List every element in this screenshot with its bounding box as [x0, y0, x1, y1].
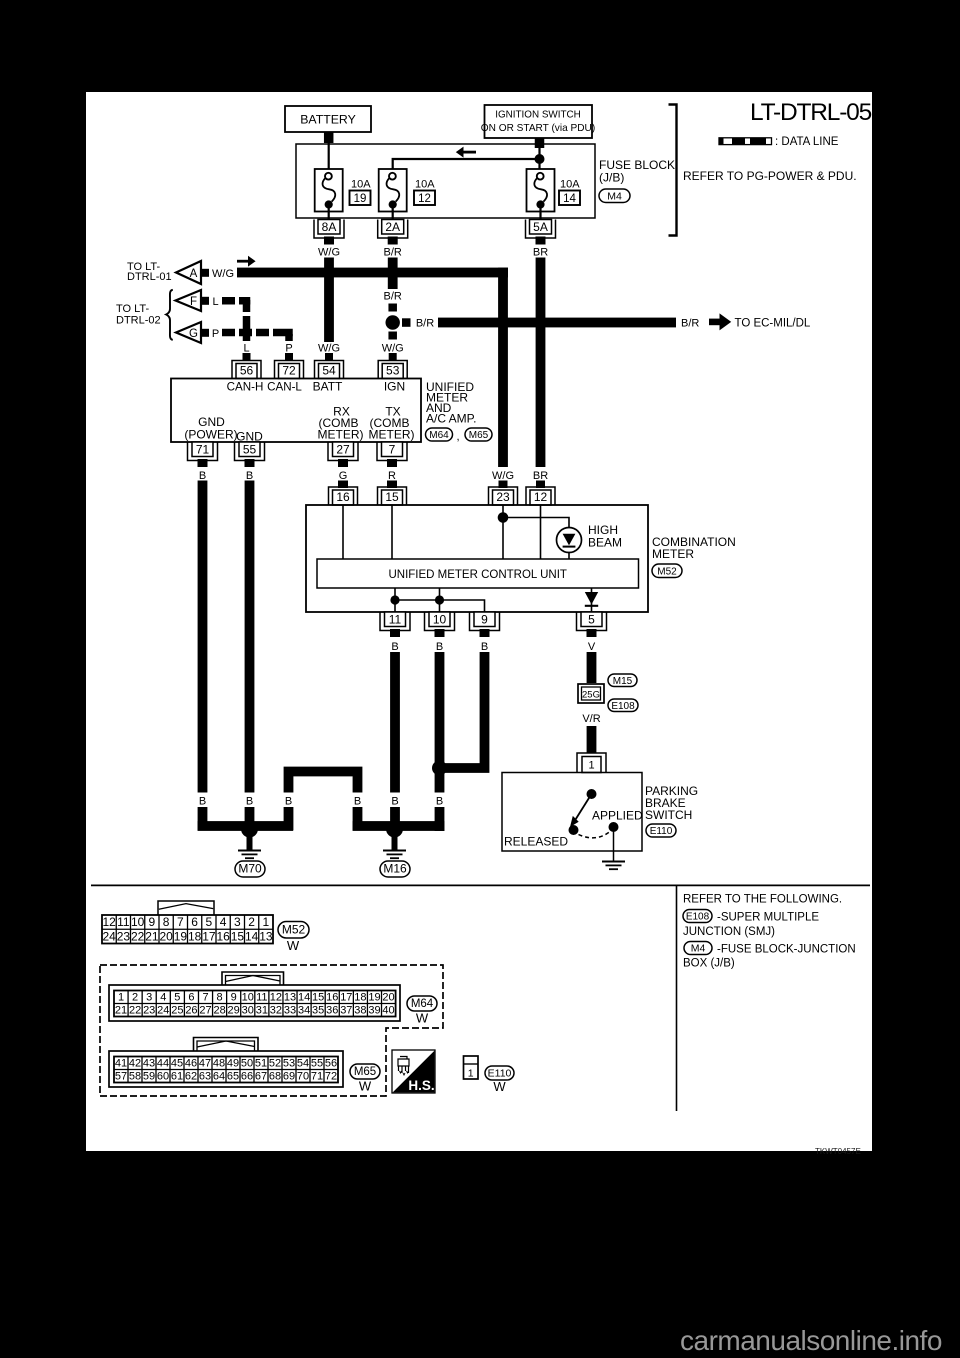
combination meter box [306, 505, 648, 612]
svg-text:27: 27 [336, 442, 350, 456]
svg-text:5: 5 [174, 991, 180, 1003]
wire B/R from 2A [388, 258, 398, 290]
svg-text:W/G: W/G [382, 343, 404, 355]
brace for DTRL-02 [166, 290, 173, 340]
svg-text:25G: 25G [582, 689, 600, 700]
stub above pin 16 [338, 481, 348, 489]
svg-text:BATT: BATT [313, 380, 343, 394]
svg-text:27: 27 [199, 1004, 211, 1016]
svg-text:4: 4 [220, 915, 227, 929]
wire pin23 to UMCU [502, 505, 504, 559]
wire W/G horizontal bus [237, 268, 508, 278]
svg-text:20: 20 [159, 929, 173, 943]
switch contact applied node [609, 822, 619, 832]
stub above pin 72 [285, 353, 293, 361]
connector pin 9 [474, 612, 495, 627]
svg-text:31: 31 [256, 1004, 268, 1016]
off-page connector F triangle [176, 290, 202, 311]
white scanned page [86, 92, 872, 1151]
svg-text:22: 22 [129, 1004, 141, 1016]
svg-text:JUNCTION (SMJ): JUNCTION (SMJ) [683, 926, 775, 938]
svg-text:DTRL-02: DTRL-02 [116, 315, 161, 327]
svg-text:M64: M64 [429, 430, 449, 441]
svg-text:P: P [212, 328, 219, 340]
svg-text:-SUPER MULTIPLE: -SUPER MULTIPLE [717, 912, 819, 924]
ground symbol parking brake [602, 861, 625, 863]
svg-text:METER): METER) [369, 428, 415, 442]
svg-text:72: 72 [282, 364, 296, 378]
wire stub below junction [388, 332, 397, 340]
svg-text:R: R [388, 470, 396, 482]
svg-text:66: 66 [241, 1070, 253, 1082]
high beam LED symbol [563, 534, 576, 546]
svg-text:(J/B): (J/B) [599, 171, 624, 185]
connector M64 tab [222, 972, 284, 986]
connector pin 5 [581, 612, 602, 627]
svg-text:UNIFIED METER CONTROL UNIT: UNIFIED METER CONTROL UNIT [388, 569, 566, 581]
fuse 14 number box [559, 191, 580, 206]
connector pin 8A [318, 220, 340, 235]
svg-text:7: 7 [202, 991, 208, 1003]
svg-text:56: 56 [325, 1057, 337, 1069]
svg-text:55: 55 [243, 442, 257, 456]
svg-text:44: 44 [157, 1057, 169, 1069]
junction node on pin23 wire [498, 512, 509, 523]
wire label B at x395 ground bus [387, 793, 403, 808]
wire UMCU to diode [591, 588, 593, 613]
wire B from pin 10 [435, 652, 445, 831]
connector M52 oval [652, 564, 682, 578]
svg-text:METER): METER) [318, 428, 364, 442]
wire V/R to parking brake [587, 726, 597, 753]
svg-text:B: B [391, 796, 398, 808]
svg-text:14: 14 [298, 991, 310, 1003]
svg-text:RELEASED: RELEASED [504, 835, 568, 849]
svg-text:M16: M16 [383, 862, 407, 876]
connector pin 12 [530, 490, 551, 505]
svg-text:B: B [246, 470, 253, 482]
svg-text:1: 1 [263, 915, 270, 929]
svg-text:BR: BR [533, 470, 548, 482]
connector M65 tab [194, 1038, 259, 1052]
svg-text:39: 39 [368, 1004, 380, 1016]
svg-text:B/R: B/R [681, 318, 699, 330]
svg-text:21: 21 [115, 1004, 127, 1016]
connector E110 pin box [464, 1056, 479, 1079]
svg-text:M52: M52 [282, 922, 306, 936]
wire junction to fuse 12 [393, 159, 540, 173]
svg-text:51: 51 [255, 1057, 267, 1069]
svg-text:24: 24 [102, 929, 116, 943]
svg-text:A: A [190, 268, 198, 280]
connector pin 10 [429, 612, 450, 627]
wire label B at x249.5 ground bus [242, 793, 258, 808]
svg-text:69: 69 [283, 1070, 295, 1082]
fuse 10A #12 [379, 169, 407, 212]
wire battery to fuse 19 [328, 143, 330, 173]
svg-text:12: 12 [418, 193, 431, 205]
svg-text:58: 58 [129, 1070, 141, 1082]
wire junction bus to pin 9 [395, 600, 485, 613]
svg-text:APPLIED: APPLIED [592, 809, 643, 823]
svg-text:W/G: W/G [492, 470, 514, 482]
fuse block bracket [669, 105, 677, 236]
connector pin 15 [382, 490, 403, 505]
connector pin 56 [236, 364, 257, 379]
ground bus bridge [289, 772, 358, 831]
connector M65 oval [465, 428, 492, 441]
svg-text:V/R: V/R [582, 713, 600, 725]
svg-text:60: 60 [157, 1070, 169, 1082]
svg-text:22: 22 [131, 929, 145, 943]
svg-text:59: 59 [143, 1070, 155, 1082]
svg-text:BR: BR [533, 247, 548, 259]
connector pin 5A [530, 220, 552, 235]
svg-text:72: 72 [325, 1070, 337, 1082]
battery output stub [324, 132, 334, 143]
svg-text:BEAM: BEAM [588, 536, 622, 550]
connector pin 23 [493, 490, 514, 505]
connector pin 2A [382, 220, 404, 235]
connector M64 oval [426, 428, 453, 441]
ground symbol M16 [383, 850, 406, 852]
fuse 12 number box [414, 191, 435, 206]
svg-text:B/R: B/R [384, 247, 402, 259]
svg-text:61: 61 [171, 1070, 183, 1082]
svg-text:5: 5 [206, 915, 213, 929]
svg-text:LT-DTRL-05: LT-DTRL-05 [750, 99, 872, 126]
svg-text:V: V [588, 641, 596, 653]
svg-text:SWITCH: SWITCH [645, 808, 692, 822]
svg-text:M70: M70 [238, 862, 262, 876]
svg-text:1: 1 [468, 1067, 474, 1079]
H.S. connector icon [398, 1057, 409, 1074]
connector M52 tab [158, 901, 214, 915]
svg-text:W/G: W/G [318, 343, 340, 355]
svg-text:55: 55 [311, 1057, 323, 1069]
svg-text:47: 47 [199, 1057, 211, 1069]
connector F stub [201, 297, 209, 305]
svg-text:12: 12 [534, 490, 548, 504]
svg-text:M15: M15 [613, 676, 633, 687]
svg-text:METER: METER [652, 547, 694, 561]
wire BR from 5A [536, 258, 546, 468]
wire UMCU to pin 10 [439, 588, 441, 613]
svg-text:34: 34 [298, 1004, 310, 1016]
svg-text:25: 25 [171, 1004, 183, 1016]
svg-text:carmanualsonline.info: carmanualsonline.info [680, 1325, 942, 1356]
svg-text:M65: M65 [469, 430, 489, 441]
svg-text:13: 13 [259, 929, 273, 943]
wire label B at x439.5 ground bus [432, 793, 448, 808]
switch contact released node [569, 825, 579, 835]
svg-text:43: 43 [143, 1057, 155, 1069]
ground bus right [353, 821, 445, 831]
svg-text:52: 52 [269, 1057, 281, 1069]
svg-text:TO EC-MIL/DL: TO EC-MIL/DL [735, 318, 811, 330]
ground junction node M70 [241, 821, 258, 838]
connector pin 72 [279, 364, 300, 379]
connector E108 oval [608, 699, 638, 712]
footer connector E108 oval [683, 910, 712, 923]
svg-text:,: , [456, 431, 459, 443]
ground connector M16 oval [380, 861, 410, 877]
ground lead M70 [247, 837, 253, 850]
svg-text:53: 53 [283, 1057, 295, 1069]
wire L data line (dashed) [222, 297, 235, 305]
svg-text:10: 10 [131, 915, 145, 929]
fuse 10A #14 [527, 169, 555, 212]
ground connector M70 oval [235, 861, 265, 877]
ground bus left [198, 821, 293, 831]
wire B/R horizontal to EC-MIL/DL [438, 318, 676, 328]
wire pin16 to UMCU [342, 505, 344, 559]
svg-text:B: B [436, 641, 443, 653]
wire B from pin 55 [245, 481, 255, 827]
svg-text:26: 26 [185, 1004, 197, 1016]
svg-text:7: 7 [177, 915, 184, 929]
svg-text:W: W [359, 1079, 372, 1094]
svg-text:B: B [481, 641, 488, 653]
junction node pin10/pin9 wires [432, 761, 447, 776]
diode symbol [585, 592, 598, 605]
svg-text:23: 23 [117, 929, 131, 943]
svg-text:71: 71 [311, 1070, 323, 1082]
connector M64 pin grid [127, 991, 129, 1017]
junction node B/R [386, 315, 400, 329]
svg-text:B/R: B/R [416, 318, 434, 330]
svg-text:63: 63 [199, 1070, 211, 1082]
wire high beam to UMCU [568, 553, 570, 560]
ignition switch output stub [535, 138, 545, 148]
wire B/R stub right of junction [402, 318, 411, 327]
svg-text:W/G: W/G [318, 247, 340, 259]
svg-text:30: 30 [242, 1004, 254, 1016]
svg-text:9: 9 [481, 612, 488, 626]
high beam indicator circle [557, 528, 582, 553]
wire applied contact to ground [613, 827, 615, 861]
connector pin 55 [239, 442, 260, 457]
svg-text:G: G [189, 328, 198, 340]
svg-text:: DATA LINE: : DATA LINE [775, 136, 839, 148]
svg-text:38: 38 [354, 1004, 366, 1016]
connector pin 27 [333, 442, 354, 457]
svg-text:BOX (J/B): BOX (J/B) [683, 958, 735, 970]
svg-text:2: 2 [132, 991, 138, 1003]
svg-text:35: 35 [312, 1004, 324, 1016]
svg-text:B: B [285, 796, 292, 808]
svg-text:64: 64 [213, 1070, 225, 1082]
svg-text:E110: E110 [488, 1068, 512, 1080]
svg-text:8A: 8A [322, 220, 337, 234]
svg-text:2A: 2A [385, 220, 400, 234]
battery box [285, 106, 371, 132]
off-page connector A triangle [176, 261, 201, 284]
wire label B at x288.5 ground bus [281, 793, 297, 808]
svg-text:B: B [436, 796, 443, 808]
ground symbol M70 [238, 850, 261, 852]
ground lead M16 [392, 837, 398, 850]
svg-text:P: P [285, 343, 292, 355]
wire B from pin 9 with turn [440, 652, 485, 768]
svg-text:W: W [416, 1011, 429, 1026]
connector pin 11 [385, 612, 406, 627]
stub above pin 12 [536, 481, 545, 489]
svg-text:53: 53 [386, 364, 400, 378]
svg-text:TO LT-: TO LT- [116, 303, 150, 315]
unified meter control unit box [317, 559, 639, 588]
wire W/G drop to pin 23 [498, 268, 508, 467]
svg-text:IGN: IGN [384, 380, 405, 394]
ignition switch box [485, 105, 593, 138]
fuse 10A #19 [315, 169, 343, 212]
wire pin15 to UMCU [391, 505, 393, 559]
wire ignition to fuse 14 [538, 148, 540, 173]
connector M65 pin grid [127, 1057, 129, 1083]
svg-text:W/G: W/G [212, 268, 234, 280]
svg-text:54: 54 [297, 1057, 309, 1069]
svg-text:13: 13 [284, 991, 296, 1003]
svg-text:19: 19 [368, 991, 380, 1003]
stub above pin 15 [387, 481, 397, 489]
svg-text:48: 48 [213, 1057, 225, 1069]
wire label B at x357.5 ground bus [350, 793, 366, 808]
svg-text:5: 5 [588, 612, 595, 626]
svg-text:TKWT0457E: TKWT0457E [815, 1147, 861, 1156]
connector M4 oval [599, 189, 630, 203]
svg-text:9: 9 [149, 915, 156, 929]
svg-text:56: 56 [240, 364, 254, 378]
svg-text:45: 45 [171, 1057, 183, 1069]
connector E110 oval [646, 824, 676, 837]
svg-text:B/R: B/R [384, 291, 402, 303]
svg-text:CAN-H: CAN-H [227, 381, 264, 394]
svg-text:B: B [199, 470, 206, 482]
dashed harness boundary M64/M65 [100, 965, 443, 1096]
svg-text:24: 24 [157, 1004, 169, 1016]
node junction ignition feed [535, 154, 545, 164]
svg-text:37: 37 [340, 1004, 352, 1016]
switch travel dashed arc [579, 832, 611, 838]
svg-text:17: 17 [340, 991, 352, 1003]
svg-text:57: 57 [115, 1070, 127, 1082]
switch pivot node [587, 789, 597, 799]
connector E110 face oval [485, 1066, 514, 1080]
svg-text:W: W [287, 938, 300, 953]
stub above pin 54 [325, 353, 333, 361]
svg-text:54: 54 [322, 364, 336, 378]
svg-text:12: 12 [270, 991, 282, 1003]
svg-text:23: 23 [143, 1004, 155, 1016]
svg-text:23: 23 [496, 490, 510, 504]
footer connector M4 oval [684, 942, 712, 955]
svg-text:10A: 10A [351, 179, 371, 191]
svg-text:10: 10 [433, 612, 447, 626]
svg-text:49: 49 [227, 1057, 239, 1069]
connector pin 54 [319, 364, 340, 379]
off-page connector G triangle [176, 322, 201, 343]
svg-text:ON OR START (via PDU): ON OR START (via PDU) [481, 123, 595, 134]
svg-text:15: 15 [231, 929, 245, 943]
svg-text:14: 14 [245, 929, 259, 943]
svg-text:F: F [190, 296, 197, 308]
svg-text:3: 3 [234, 915, 241, 929]
svg-text:11: 11 [389, 612, 402, 626]
svg-text:REFER TO PG-POWER & PDU.: REFER TO PG-POWER & PDU. [683, 169, 857, 183]
svg-text:DTRL-01: DTRL-01 [127, 271, 172, 283]
svg-text:L: L [243, 343, 249, 355]
wire UMCU to pin 11 [394, 588, 396, 613]
svg-text:M4: M4 [691, 943, 706, 955]
svg-text:2: 2 [248, 915, 255, 929]
svg-text:32: 32 [270, 1004, 282, 1016]
fuse block J/B box [296, 144, 595, 218]
svg-text:41: 41 [115, 1057, 127, 1069]
svg-text:11: 11 [256, 991, 267, 1003]
svg-text:36: 36 [326, 1004, 338, 1016]
stub above pin 23 [499, 481, 508, 489]
svg-text:11: 11 [117, 915, 130, 929]
connector G stub [201, 329, 209, 337]
svg-text:16: 16 [336, 490, 350, 504]
stub above pin 53 [389, 353, 397, 361]
data line legend bar [719, 138, 772, 145]
svg-text:M4: M4 [607, 190, 622, 202]
stub above pin 56 [243, 353, 251, 361]
svg-text:M65: M65 [354, 1066, 376, 1078]
connector pin 16 [333, 490, 354, 505]
wire B from pin 71 [198, 481, 208, 831]
connector A stub [201, 269, 209, 277]
svg-text:19: 19 [174, 929, 188, 943]
junction node pin11 wire [390, 595, 399, 604]
svg-text:4: 4 [160, 991, 166, 1003]
svg-text:16: 16 [326, 991, 338, 1003]
arrow to EC-MIL/DL [709, 319, 720, 326]
svg-text:65: 65 [227, 1070, 239, 1082]
svg-text:10: 10 [242, 991, 254, 1003]
svg-text:E108: E108 [686, 912, 710, 923]
svg-text:68: 68 [269, 1070, 281, 1082]
fuse 19 number box [350, 191, 371, 206]
section separator line [91, 884, 870, 886]
svg-text:18: 18 [354, 991, 366, 1003]
svg-text:10A: 10A [560, 179, 580, 191]
svg-text:40: 40 [382, 1004, 394, 1016]
svg-text:B: B [354, 796, 361, 808]
svg-text:10A: 10A [415, 179, 435, 191]
svg-text:9: 9 [231, 991, 237, 1003]
svg-text:33: 33 [284, 1004, 296, 1016]
svg-text:46: 46 [185, 1057, 197, 1069]
svg-text:A/C AMP.: A/C AMP. [426, 412, 476, 426]
arrow left (feed direction) [463, 151, 476, 154]
svg-text:G: G [339, 470, 348, 482]
connector pin 71 [192, 442, 213, 457]
svg-text:19: 19 [354, 193, 367, 205]
connector pin 53 [382, 364, 403, 379]
svg-text:CAN-L: CAN-L [267, 381, 302, 394]
svg-text:42: 42 [129, 1057, 141, 1069]
svg-text:M64: M64 [411, 998, 434, 1010]
svg-text:67: 67 [255, 1070, 267, 1082]
connector pin 7 [382, 442, 403, 457]
svg-text:3: 3 [146, 991, 152, 1003]
svg-text:8: 8 [217, 991, 223, 1003]
connector M64 outer shell [109, 985, 400, 1021]
wire B from pin 11 [390, 652, 400, 831]
svg-text:B: B [391, 641, 398, 653]
